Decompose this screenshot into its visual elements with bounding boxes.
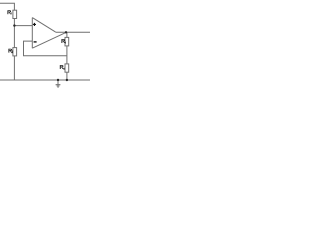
wire R3 bottom through node C to R4 (66, 46, 68, 64)
wire output from apex to right edge (56, 31, 90, 33)
label R3 letter (61, 39, 65, 43)
op-amp plus marker (33, 23, 36, 26)
label R1 letter (7, 10, 11, 14)
label R2 subscript 2 (12, 51, 13, 53)
op-amp U1 triangle bottom edge to output node (32, 32, 66, 48)
wire node A to op-amp + input (14, 25, 32, 27)
resistor R1 body (13, 10, 17, 18)
resistor R3 body (65, 37, 69, 46)
wire minus input left segment (24, 41, 67, 56)
op-amp minus marker (34, 41, 37, 43)
op-amp U1 triangle top edge (32, 18, 55, 32)
label R4 letter (60, 65, 64, 69)
label R4 subscript 4 (63, 68, 64, 70)
ground symbol stem (57, 80, 59, 85)
op-amp U1 triangle left edge (31, 18, 33, 49)
ground symbol bar 3 (58, 86, 59, 88)
node A junction dot (13, 24, 15, 26)
resistor R2 body (13, 48, 17, 56)
wire R1 bottom to node A and down to R2 (13, 19, 15, 48)
ground junction dot (57, 79, 59, 81)
wire input from left edge to top of R1 chain (0, 3, 14, 10)
label R2 letter (8, 49, 12, 53)
label R1 subscript 1 (10, 12, 12, 14)
ground rail bottom wire (0, 79, 90, 81)
node D rail junction dot (66, 79, 68, 81)
wire output node down to R3 (66, 32, 68, 37)
wire R2 bottom to ground rail (13, 56, 15, 80)
resistor R4 body (65, 64, 69, 72)
label R3 subscript 3 (64, 42, 67, 44)
node B output junction dot (65, 31, 67, 33)
ground symbol bar 2 (57, 85, 60, 87)
ground symbol bar 1 (56, 84, 61, 86)
wire R4 bottom to ground rail (66, 72, 68, 80)
